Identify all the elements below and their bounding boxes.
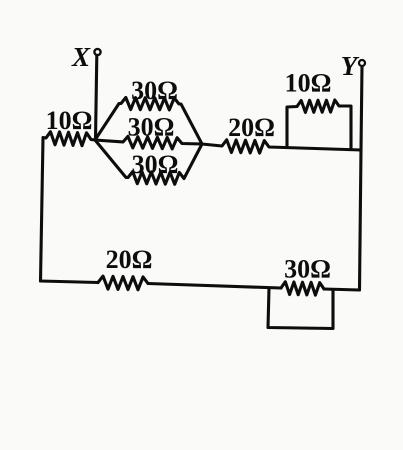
- resistor 10&#937; bypass loop top-right: [287, 100, 351, 149]
- wire Y drop (right vertical): [360, 67, 363, 291]
- resistor 30&#937; bottom-right: [281, 282, 324, 295]
- svg-text:30Ω: 30Ω: [284, 255, 331, 284]
- wire bottom-right to right vertical: [324, 289, 360, 290]
- wire bottom-left corner: [41, 281, 99, 283]
- svg-text:30Ω: 30Ω: [131, 76, 178, 105]
- svg-text:10Ω: 10Ω: [285, 69, 332, 98]
- svg-text:30Ω: 30Ω: [132, 150, 179, 179]
- svg-text:Y: Y: [341, 51, 360, 81]
- terminal Y marker: [359, 60, 365, 66]
- wire bottom middle: [148, 284, 281, 289]
- resistor 10&#937; left: [43, 132, 95, 146]
- svg-text:10Ω: 10Ω: [46, 106, 93, 135]
- svg-text:20Ω: 20Ω: [106, 245, 153, 274]
- svg-text:X: X: [71, 42, 91, 72]
- resistor 30&#937; middle branch: [95, 136, 202, 149]
- wire X drop to node A: [96, 56, 97, 141]
- wire left vertical: [41, 139, 44, 282]
- resistor 20&#937; middle: [202, 140, 361, 153]
- svg-text:30Ω: 30Ω: [128, 113, 175, 142]
- resistor 30&#937; bottom branch: [95, 140, 202, 184]
- terminal X marker: [94, 49, 100, 55]
- resistor 30&#937; top branch: [95, 98, 202, 145]
- svg-text:20Ω: 20Ω: [228, 113, 275, 142]
- resistor 20&#937; bottom: [98, 276, 148, 290]
- wire shorting loop around 30&#937;: [268, 288, 333, 329]
